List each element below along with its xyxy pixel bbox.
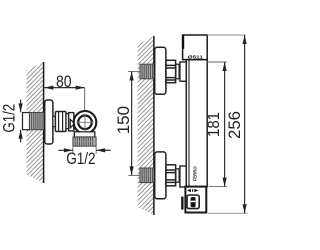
washer (left view) xyxy=(66,114,69,129)
dimension G1/2 left (pipe thread) xyxy=(1,100,23,143)
bottom pipe thread in wall (right view) xyxy=(140,168,154,183)
extension line to valve center (left view) xyxy=(84,88,86,111)
cap left thick mark (right view) xyxy=(182,35,184,49)
dimension G1/2 bottom (outlet thread) xyxy=(58,147,110,168)
dimension 256 (right view) xyxy=(207,35,247,213)
mixer body (right view) xyxy=(186,60,207,187)
svg-text:FERRO: FERRO xyxy=(193,166,198,181)
svg-text:256: 256 xyxy=(226,111,244,139)
dimension 181 (right view) xyxy=(205,62,227,187)
top body inlet flange (right view) xyxy=(180,62,186,81)
pipe thread in wall (left view) xyxy=(30,113,44,130)
dimension 80 (left view) xyxy=(44,73,84,91)
valve head inner circle (left view) xyxy=(78,116,92,130)
pipe between flange and nut (left view) xyxy=(53,116,56,126)
bottom wall flange (right view) xyxy=(155,152,166,199)
valve cone wedge (left view) xyxy=(70,119,74,127)
wall face line (right view) xyxy=(153,36,155,215)
svg-text:Ø511: Ø511 xyxy=(188,54,204,59)
top nut (right view) xyxy=(166,60,176,82)
outlet thread G1/2 (left view) xyxy=(73,137,96,146)
top pipe thread in wall (right view) xyxy=(140,64,154,79)
top cap (right view) xyxy=(183,35,208,60)
pipe end stub (left view) xyxy=(23,113,30,130)
top washer (right view) xyxy=(176,64,179,79)
svg-text:G1/2: G1/2 xyxy=(66,150,95,168)
crosshair centerlines (left view) xyxy=(76,114,93,131)
bottom knob (right view) xyxy=(185,187,206,213)
top wall flange (right view) xyxy=(155,47,166,94)
body inner seam line (right view) xyxy=(188,60,190,186)
hex nut (left view) xyxy=(55,112,66,132)
dimension 150 (right view) xyxy=(115,72,140,176)
wall (left view) hatched band xyxy=(27,62,44,183)
bottom body inlet flange (right view) xyxy=(180,166,186,187)
wall flange / escutcheon (left view) xyxy=(45,100,53,144)
wall (right view) hatched band xyxy=(138,36,155,215)
knob inner plate (right view) xyxy=(187,195,199,209)
bottom nut (right view) xyxy=(166,165,176,186)
bottom washer (right view) xyxy=(176,169,179,182)
knob left thick lever mark (right view) xyxy=(181,197,183,210)
svg-text:G1/2: G1/2 xyxy=(1,104,19,133)
outlet collar (left view) xyxy=(74,132,95,137)
svg-text:181: 181 xyxy=(205,112,223,137)
svg-text:80: 80 xyxy=(56,73,72,91)
valve head outer circle (left view) xyxy=(74,111,97,134)
svg-text:150: 150 xyxy=(115,106,133,134)
wall face line (left view) xyxy=(43,62,45,183)
temperature arrows symbol on knob xyxy=(187,189,198,192)
knob button pill (right view) xyxy=(191,197,196,207)
valve body block (left view) xyxy=(69,113,74,131)
